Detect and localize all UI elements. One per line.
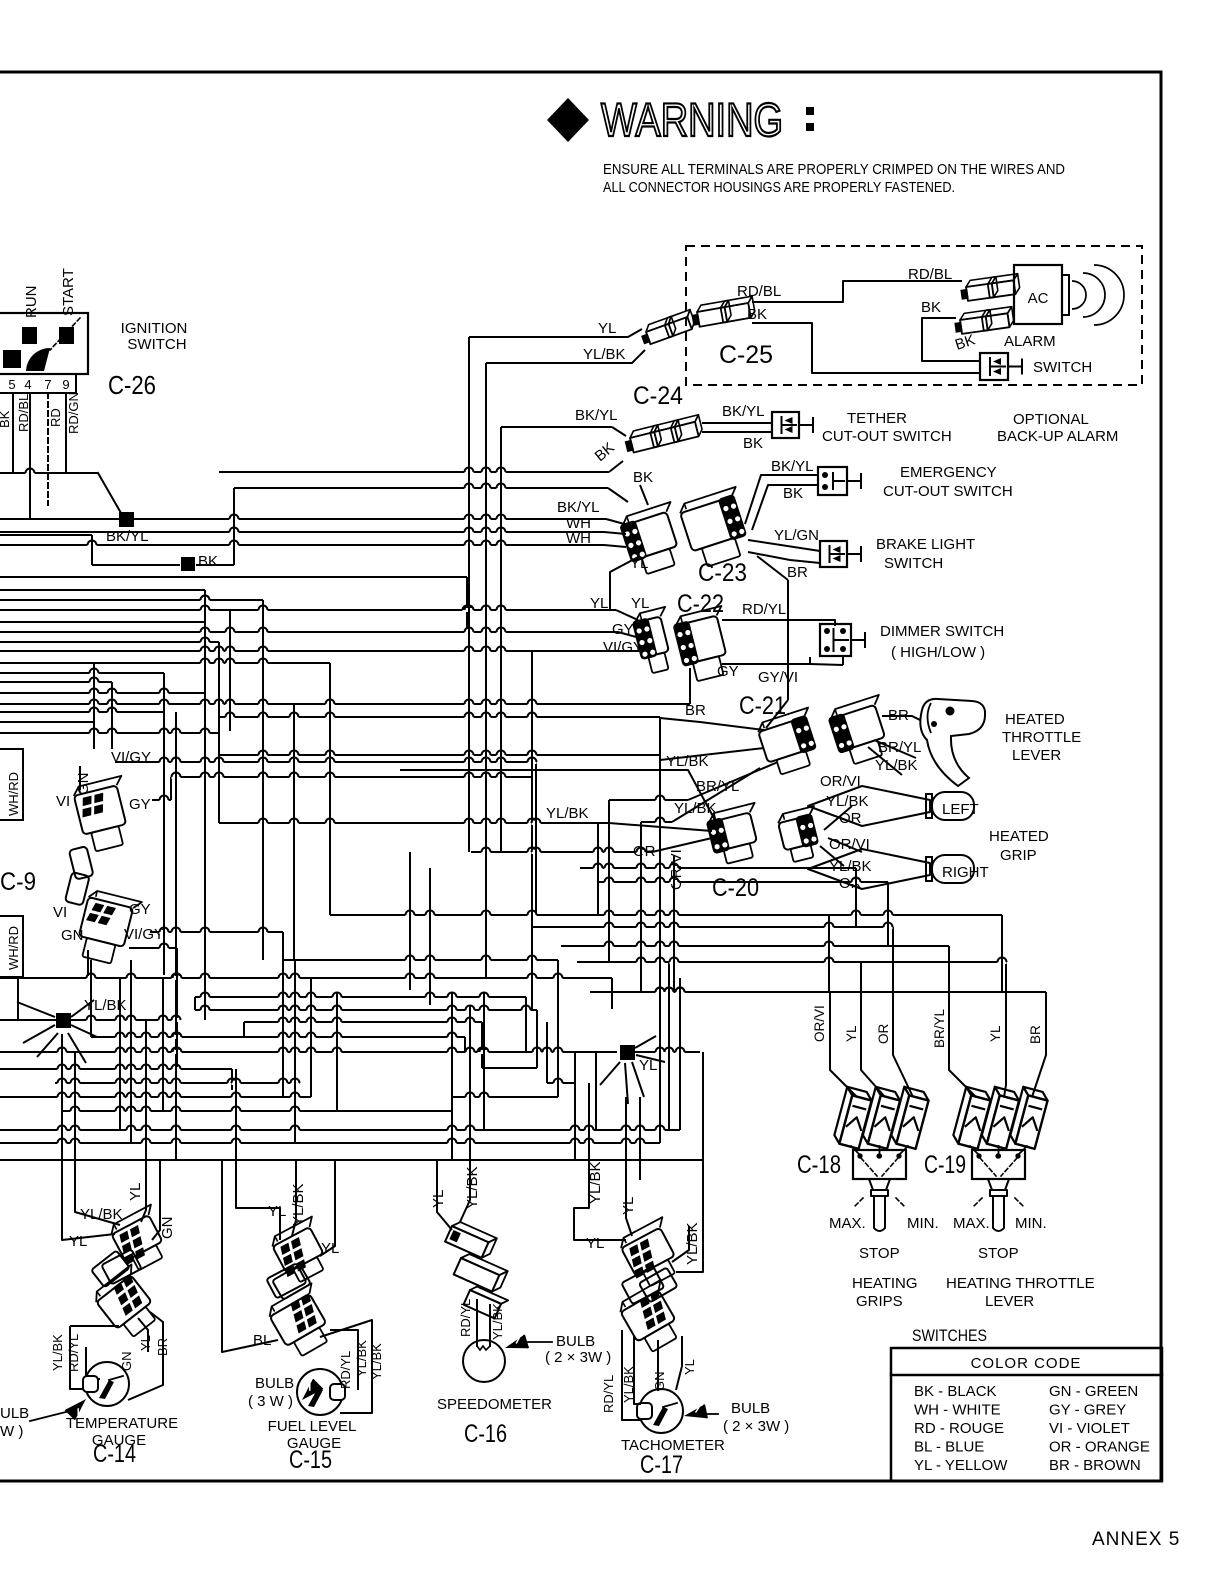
wire stub box upper: [0, 749, 23, 820]
wire segment h95: [0, 1019, 180, 1021]
emergency cut-out switch: [818, 467, 847, 495]
wire VI/GY into C-22: [0, 650, 640, 652]
wire WH 1 to C-23: [0, 532, 626, 534]
wire YL/BK to C-25: [486, 350, 645, 363]
connector C-17 upper: [617, 1217, 689, 1290]
svg-text:C-14: C-14: [93, 1440, 136, 1468]
fuel gauge dial: [297, 1369, 343, 1415]
wire segment v128: [145, 1020, 147, 1160]
svg-text:BK: BK: [783, 485, 803, 502]
svg-text:AC: AC: [1028, 290, 1049, 307]
wire segment v141: [639, 1097, 641, 1160]
wire segment v129: [162, 978, 164, 1111]
svg-text:BR/YL: BR/YL: [878, 739, 921, 756]
svg-text:7: 7: [44, 377, 51, 392]
connector C-20 left: [704, 803, 767, 866]
optional alarm dashed enclosure: [686, 246, 1142, 385]
svg-text:GN: GN: [61, 927, 84, 944]
wire segment v121: [595, 1052, 597, 1130]
wire segment v36: [293, 704, 295, 960]
wire segment v133: [310, 978, 312, 1097]
svg-text:YL/BK: YL/BK: [369, 1343, 384, 1380]
wire segment h77: [688, 762, 778, 800]
wire segment h62: [580, 867, 856, 869]
backup alarm switch: [980, 353, 1008, 380]
connector C-14 lower: [91, 1264, 167, 1341]
wire BR into C-21: [660, 718, 764, 730]
svg-text:CUT-OUT SWITCH: CUT-OUT SWITCH: [883, 483, 1013, 500]
svg-text:RD: RD: [48, 408, 63, 427]
wire segment h92: [195, 1009, 537, 1011]
wire segment v139: [611, 992, 613, 1009]
wire segment v35: [262, 600, 264, 960]
connector C-24: [623, 415, 704, 454]
svg-text:BK: BK: [743, 435, 763, 452]
wire segment h78: [609, 799, 688, 801]
wire segment v10: [233, 488, 235, 565]
wire segment v122: [61, 1034, 63, 1160]
svg-text:RD/YL: RD/YL: [458, 1299, 473, 1337]
wire segment h100: [0, 1068, 232, 1070]
wire segment h22: [0, 681, 112, 683]
connector C-25: [690, 296, 756, 328]
wire segment h16: [616, 610, 638, 620]
wire segment h21: [0, 672, 164, 674]
wire segment v71: [766, 700, 788, 728]
wire C-14 loop2: [62, 1160, 115, 1240]
wire segment h23: [0, 692, 205, 694]
wire segment h76: [868, 747, 902, 775]
svg-text:YL/BK: YL/BK: [354, 1340, 369, 1377]
svg-text:ALL CONNECTOR HOUSINGS ARE PRO: ALL CONNECTOR HOUSINGS ARE PROPERLY FAST…: [603, 180, 955, 196]
svg-text:RD/YL: RD/YL: [66, 1334, 81, 1372]
wire segment h44: [612, 427, 626, 436]
junction YL/BK lower-left: [56, 1013, 71, 1028]
svg-text:HEATED: HEATED: [989, 828, 1049, 845]
wire segment v123: [74, 1052, 76, 1160]
wire segment v72: [673, 856, 675, 992]
svg-text:YL/BK: YL/BK: [464, 1166, 481, 1209]
svg-text:HEATED: HEATED: [1005, 711, 1065, 728]
wire segment h84: [828, 838, 862, 852]
svg-text:9: 9: [62, 377, 69, 392]
wire C-17 right loop: [639, 1160, 641, 1180]
wire segment v65: [887, 882, 889, 946]
wire segment v42: [500, 427, 502, 852]
bulb symbol C-16: [503, 1335, 528, 1355]
wire C-15 YL right: [320, 1160, 335, 1256]
svg-text:YL/BK: YL/BK: [490, 1303, 505, 1340]
wire C-25 BK lower: [752, 323, 980, 373]
wire segment v83: [689, 668, 691, 704]
wire segment h80: [672, 768, 760, 822]
dimmer switch: [820, 624, 851, 656]
junction YL right: [620, 1045, 635, 1060]
wire segment v143: [679, 978, 681, 1130]
svg-text:YL - YELLOW: YL - YELLOW: [914, 1457, 1008, 1474]
svg-text:GY: GY: [129, 796, 151, 813]
svg-text:C-16: C-16: [464, 1420, 507, 1448]
connector C-15 upper: [268, 1217, 337, 1287]
wire YL to C-18: [861, 962, 885, 1097]
svg-text:DIMMER SWITCH: DIMMER SWITCH: [880, 623, 1004, 640]
wire C-24 to tether upper BK/YL: [702, 422, 772, 424]
wire segment v30: [163, 673, 165, 975]
wire segment v38: [409, 852, 411, 990]
svg-text:LEVER: LEVER: [985, 1293, 1034, 1310]
svg-text:C-20: C-20: [712, 874, 759, 902]
wire segment h24: [0, 703, 690, 705]
svg-text:YL: YL: [988, 1025, 1003, 1042]
border frame bottom: [0, 1480, 1161, 1483]
svg-text:C-15: C-15: [289, 1446, 332, 1474]
wire segment v153: [632, 1062, 644, 1097]
svg-text:BK/YL: BK/YL: [722, 403, 765, 420]
svg-text:IGNITION: IGNITION: [121, 320, 188, 337]
wire segment v130: [235, 1069, 237, 1160]
wire segment v94: [243, 1022, 245, 1037]
wire C-14 box: [70, 1326, 96, 1389]
wire segment v47: [87, 950, 89, 978]
svg-text:YL: YL: [138, 1335, 153, 1351]
wire segment h11: [0, 576, 467, 578]
wire segment v97: [464, 1037, 466, 1052]
svg-text:YL/BK: YL/BK: [50, 1334, 65, 1371]
wire segment h102: [55, 1082, 300, 1084]
wire segment v120: [588, 1083, 590, 1160]
svg-text:LEVER: LEVER: [1012, 747, 1061, 764]
wire segment h96: [91, 1036, 465, 1038]
wire segment h61: [471, 851, 652, 853]
wire OR/VI to C-18: [830, 993, 857, 1097]
wire segment v29: [111, 682, 113, 749]
wire segment h151: [635, 1036, 656, 1048]
wire segment v118: [557, 960, 559, 1097]
svg-text:OR: OR: [839, 810, 862, 827]
svg-text:SWITCHES: SWITCHES: [912, 1327, 987, 1345]
wire segment v57: [176, 948, 178, 1068]
wire BR/YL to C-19: [949, 946, 976, 1097]
alarm spade RD/BL: [959, 274, 1020, 302]
svg-text:VI: VI: [53, 904, 67, 921]
wire bulb leader C-17: [705, 1413, 718, 1415]
svg-text:RD/YL: RD/YL: [742, 601, 786, 618]
svg-text:BK: BK: [921, 299, 941, 316]
heated grip right pennant: [808, 849, 930, 889]
svg-text:BR - BROWN: BR - BROWN: [1049, 1457, 1141, 1474]
svg-text:YL/BK: YL/BK: [290, 1183, 307, 1226]
svg-text:BK/YL: BK/YL: [557, 499, 600, 516]
svg-text:YL/BK: YL/BK: [829, 858, 872, 875]
wire from ignition pin 9: [65, 393, 67, 473]
wire segment v52: [531, 651, 533, 1010]
border frame right: [1160, 72, 1163, 1481]
svg-text:BACK-UP ALARM: BACK-UP ALARM: [997, 428, 1118, 445]
svg-text:C-17: C-17: [640, 1451, 683, 1479]
switch C-18 assembly: [853, 1150, 906, 1179]
wire segment h105: [62, 1110, 451, 1112]
svg-text:WH: WH: [566, 530, 591, 547]
wire segment h8: [92, 564, 180, 566]
wire segment h53: [219, 822, 609, 824]
wire segment v73: [597, 823, 599, 915]
speedometer dial: [463, 1340, 505, 1382]
svg-text:VI/GY: VI/GY: [111, 749, 151, 766]
svg-text:GY: GY: [129, 901, 151, 918]
svg-text:RD/GN: RD/GN: [66, 392, 81, 434]
svg-text:BK - BLACK: BK - BLACK: [914, 1383, 997, 1400]
svg-text:ANNEX 5: ANNEX 5: [1092, 1529, 1180, 1550]
wire segment v137: [481, 1022, 483, 1068]
wire segment h149: [23, 1025, 55, 1043]
svg-text:SWITCH: SWITCH: [127, 336, 186, 353]
connector C-14 upper: [107, 1205, 176, 1275]
brake light switch: [820, 541, 847, 567]
wire crossing bumps: [26, 471, 35, 475]
wire segment v135: [451, 992, 453, 1160]
svg-text:( HIGH/LOW ): ( HIGH/LOW ): [891, 644, 985, 661]
color code table frame: [891, 1348, 1162, 1481]
color code header rule: [891, 1374, 1162, 1377]
wire segment h106: [0, 1129, 680, 1131]
wire emergency BK/YL: [745, 475, 818, 524]
wire C-14 loop1: [75, 1160, 120, 1225]
AC alarm box: [1014, 265, 1062, 324]
wire segment h60: [219, 754, 660, 756]
svg-text:OR: OR: [876, 1023, 891, 1044]
svg-text:GRIP: GRIP: [1000, 847, 1037, 864]
wire segment v124: [17, 978, 19, 1020]
wire segment h5: [608, 488, 628, 502]
wire segment h115: [482, 1067, 537, 1069]
wire segment v136: [469, 1005, 471, 1160]
wire segment h93: [244, 1021, 482, 1023]
wire segment h15: [0, 609, 616, 611]
svg-text:SWITCH: SWITCH: [884, 555, 943, 572]
wire from ignition pin 7 dashed: [47, 393, 49, 505]
svg-text:VI: VI: [56, 793, 70, 810]
wire segment h45: [115, 761, 536, 763]
wire BK/YL junction to C-23: [133, 519, 628, 525]
svg-text:RD/BL: RD/BL: [908, 266, 952, 283]
wire segment h109: [561, 945, 949, 947]
wire YL/GN brake: [748, 540, 820, 551]
svg-text:STOP: STOP: [859, 1245, 900, 1262]
svg-text:TETHER: TETHER: [847, 410, 907, 427]
svg-text:BK: BK: [633, 469, 653, 486]
wire segment h9: [196, 564, 234, 566]
wire segment v33: [218, 642, 220, 823]
ignition switch body: [0, 313, 88, 374]
connector C-23 left: [617, 502, 689, 578]
svg-text:LEFT: LEFT: [942, 801, 979, 818]
wire segment h74: [824, 806, 852, 830]
svg-text:YL: YL: [430, 1190, 447, 1208]
svg-text:YL/BK: YL/BK: [684, 1222, 701, 1265]
heated grip left pennant: [808, 786, 930, 826]
svg-text:RUN: RUN: [23, 286, 40, 319]
wire C-25 RD/BL: [752, 281, 962, 302]
svg-text:WH/RD: WH/RD: [6, 926, 21, 970]
wire C-15 BL: [222, 1160, 278, 1352]
svg-text:YL: YL: [127, 1183, 144, 1201]
wire C-16 YL/BK: [460, 1160, 470, 1222]
wire segment h104: [451, 1096, 558, 1098]
svg-text:MAX.: MAX.: [829, 1215, 866, 1232]
junction BK/YL: [119, 512, 134, 527]
wire segment v154: [625, 1063, 628, 1104]
wire segment h19: [0, 641, 219, 643]
svg-text:OR/VI: OR/VI: [829, 836, 870, 853]
wire segment h69: [757, 556, 788, 580]
svg-text:C-18: C-18: [797, 1151, 841, 1179]
wire C-17 gauge loops: [622, 1330, 640, 1420]
connector C-21 left: [756, 708, 825, 778]
wire segment v142: [668, 962, 670, 1130]
svg-text:YL/BK: YL/BK: [583, 346, 626, 363]
wire BR to C-19: [1032, 992, 1046, 1097]
svg-text:HEATING: HEATING: [852, 1275, 918, 1292]
svg-text:STOP: STOP: [978, 1245, 1019, 1262]
wire segment h66: [330, 914, 1002, 916]
tachometer dial: [639, 1389, 683, 1433]
svg-text:FUEL LEVEL: FUEL LEVEL: [268, 1418, 357, 1435]
svg-text:OPTIONAL: OPTIONAL: [1013, 411, 1089, 428]
wire segment h58: [219, 716, 660, 718]
wire segment v132: [294, 960, 296, 1143]
wire OR to C-20: [652, 838, 712, 852]
wire segment h27: [0, 732, 219, 734]
wire segment h56: [129, 947, 177, 949]
svg-text:GN: GN: [159, 1217, 176, 1240]
svg-text:GY - GREY: GY - GREY: [1049, 1402, 1126, 1419]
wire segment h90: [195, 996, 526, 998]
wire segment v28: [93, 663, 95, 749]
wire segment v82: [640, 822, 642, 992]
svg-text:SPEEDOMETER: SPEEDOMETER: [437, 1396, 552, 1413]
connector C-9 upper: [72, 776, 138, 854]
svg-text:YL: YL: [631, 595, 649, 612]
svg-text:BK: BK: [0, 410, 12, 428]
svg-text:C-23: C-23: [698, 559, 747, 587]
svg-text:YL: YL: [620, 1197, 637, 1215]
svg-text:OR/VI: OR/VI: [820, 773, 861, 790]
svg-text:( 3 W ): ( 3 W ): [248, 1393, 293, 1410]
speedometer shaft: [476, 1300, 478, 1346]
wire segment v32: [204, 590, 206, 1020]
wire segment v79: [608, 800, 610, 962]
wire segment v116: [546, 1022, 548, 1083]
warning diamond symbol: [547, 98, 589, 142]
wire C-14 YL top: [141, 1160, 146, 1222]
svg-text:5: 5: [8, 377, 15, 392]
wire segment h152: [636, 1055, 665, 1062]
svg-text:OR/VI: OR/VI: [812, 1005, 827, 1042]
svg-text:EMERGENCY: EMERGENCY: [900, 464, 997, 481]
ignition switch terminal pin 4: [22, 327, 37, 344]
svg-text:BULB: BULB: [556, 1333, 595, 1350]
alarm sound waves: [1072, 281, 1086, 309]
wire segment v31: [175, 712, 177, 1160]
ignition switch pin strip: [0, 374, 76, 393]
wire YL/BK long to C-20: [400, 770, 716, 822]
svg-text:BR: BR: [1028, 1025, 1043, 1044]
wire C-14 right loop: [138, 1318, 148, 1352]
connector C-20 right: [776, 806, 826, 863]
wire RD/YL dimmer: [722, 620, 835, 626]
wire bulb leader C-16: [528, 1341, 552, 1343]
wire segment h17: [0, 599, 263, 601]
svg-text:BK: BK: [198, 553, 218, 570]
wire segment h107: [0, 1142, 660, 1144]
wire segment h14: [0, 599, 263, 601]
wire segment h26: [0, 721, 94, 723]
connector C-16 chain: [445, 1220, 497, 1261]
svg-text:RD/BL: RD/BL: [737, 283, 781, 300]
wire segment h150: [17, 1002, 55, 1017]
wire segment h6: [0, 534, 92, 536]
svg-text:C-26: C-26: [108, 370, 156, 400]
svg-text:C-21: C-21: [739, 692, 786, 720]
wire segment v70: [787, 580, 789, 700]
wire segment v113: [525, 997, 527, 1052]
connector C-9 lower: [74, 889, 142, 967]
wire segment h145: [71, 1000, 94, 1017]
wire C-17 YL: [626, 1160, 632, 1236]
wire segment v147: [68, 1033, 86, 1063]
wire segment v12: [466, 577, 468, 629]
connector C-21 right: [826, 695, 897, 768]
junction BK: [181, 557, 195, 571]
wire C-21 to lever: [882, 716, 920, 720]
svg-text:YL: YL: [682, 1359, 697, 1375]
svg-text:RD - ROUGE: RD - ROUGE: [914, 1420, 1004, 1437]
svg-text:BR: BR: [787, 564, 808, 581]
svg-text:( 2 × 3W ): ( 2 × 3W ): [545, 1349, 611, 1366]
wire C-15 YL left: [236, 1160, 280, 1240]
svg-text:ENSURE ALL TERMINALS ARE PROPE: ENSURE ALL TERMINALS ARE PROPERLY CRIMPE…: [603, 162, 1065, 178]
svg-text:GN - GREEN: GN - GREEN: [1049, 1383, 1138, 1400]
connector C-22 right: [671, 606, 738, 684]
wire segment v67: [828, 915, 830, 993]
wire segment v63: [855, 868, 857, 927]
wire segment h81: [641, 821, 672, 823]
wire segment h51: [171, 776, 532, 778]
wire C-24 to tether lower BK: [702, 431, 772, 433]
svg-text:C-19: C-19: [924, 1151, 966, 1179]
svg-text:SWITCH: SWITCH: [1033, 359, 1092, 376]
wire segment h4: [234, 487, 608, 489]
svg-text:ALARM: ALARM: [1004, 333, 1056, 350]
svg-text:WH - WHITE: WH - WHITE: [914, 1402, 1001, 1419]
svg-text:YL/BK: YL/BK: [546, 805, 589, 822]
wire segment h117: [547, 1082, 575, 1084]
wire OR to C-18: [893, 927, 913, 1097]
wire segment h108: [0, 1159, 703, 1161]
wire segment v88: [611, 978, 613, 992]
wire segment h112: [590, 991, 1046, 993]
svg-text:VI/GY: VI/GY: [124, 926, 164, 943]
wire segment v91: [194, 997, 196, 1010]
wire segment v119: [574, 1052, 576, 1160]
wire segment v41: [485, 363, 487, 978]
wire C-14 GN: [152, 1160, 160, 1240]
svg-text:YL/BK: YL/BK: [666, 753, 709, 770]
wire segment h25: [0, 711, 164, 713]
svg-text:YL: YL: [586, 1235, 604, 1252]
svg-text:RD/YL: RD/YL: [601, 1375, 616, 1413]
wire emergency BK: [752, 485, 818, 530]
